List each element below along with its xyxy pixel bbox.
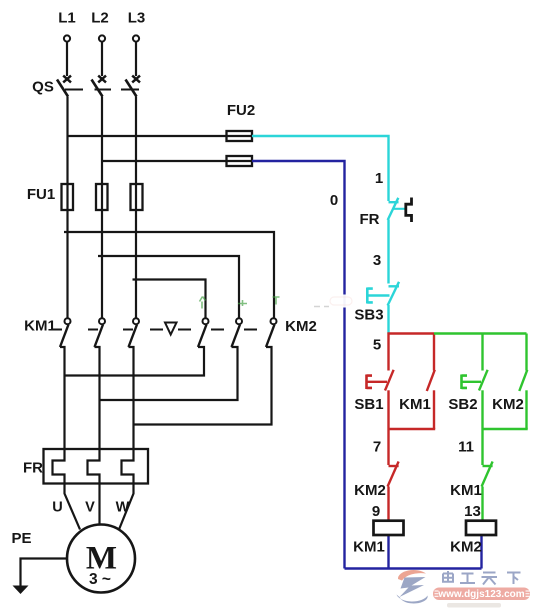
svg-text:FU1: FU1: [27, 186, 55, 203]
switch QS pole 1 contact cross: [63, 76, 71, 83]
button SB2 blade: [479, 370, 488, 391]
svg-text:11: 11: [458, 439, 474, 456]
wire node 3 to node 5: [387, 305, 389, 334]
switch QS linkage dash 1: [65, 89, 83, 91]
button SB2 cap: [462, 375, 468, 390]
svg-text:1: 1: [375, 170, 383, 187]
button SB2 stem: [462, 381, 482, 383]
wire KM2 pole 1 to node U: [65, 347, 205, 376]
switch QS pole 1 blade: [57, 80, 68, 97]
wire crossover phase A to KM2 right pole: [64, 232, 274, 318]
button SB1 stem: [367, 381, 388, 383]
contact KM2 NC blade: [388, 462, 399, 487]
watermark text tian (天): [482, 573, 498, 585]
fuse FU2 lower body: [227, 156, 253, 166]
svg-text:KM2: KM2: [354, 482, 386, 499]
contactor KM2 pole 3 blade: [266, 325, 275, 348]
contact KM1 aux upper wire: [433, 334, 435, 371]
wire FR actuator link: [393, 208, 405, 210]
button SB1 blade: [385, 370, 394, 391]
wire neutral 0 from FU2 (navy): [252, 161, 345, 569]
node L2 terminal: [99, 35, 105, 41]
svg-text:SB2: SB2: [448, 396, 477, 413]
svg-text:KM2: KM2: [492, 396, 524, 413]
contactor KM1 pole 3 terminal: [133, 318, 139, 324]
wire phase B QS to FU1: [101, 97, 103, 319]
fuse FU1 phase C body: [131, 184, 143, 210]
faint watermark gray dashes mid diagram: [314, 306, 329, 308]
svg-text:www.dgjs123.com: www.dgjs123.com: [437, 589, 524, 600]
fuse FU1 phase B body: [96, 184, 108, 210]
wire control tap phase A to FU2 upper: [68, 135, 227, 137]
contactor KM2 pole 2 blade: [232, 325, 241, 348]
watermark faint footer text: [447, 603, 501, 608]
wire node 1 to node 3: [387, 220, 389, 284]
wire motor phase W KM1 to FR: [129, 347, 134, 449]
button SB3 cap: [367, 288, 373, 304]
wire FR to motor terminal W: [119, 484, 134, 530]
watermark url pill: [433, 588, 530, 601]
contact KM2 aux lower wire: [525, 390, 527, 429]
wire SB2 to node 11 bus: [481, 390, 483, 429]
contact KM1 aux blade: [427, 370, 435, 391]
wire crossover phase C to KM2 left pole: [133, 280, 206, 319]
svg-text:FR: FR: [23, 460, 43, 477]
svg-text:0: 0: [330, 192, 338, 209]
svg-text:FU2: FU2: [227, 102, 255, 119]
switch QS linkage dash 2: [95, 89, 112, 91]
thermal overload FR box: [44, 449, 149, 484]
wire L2 drop to QS: [101, 42, 103, 76]
svg-text:KM1: KM1: [24, 318, 56, 335]
contactor KM2 pole 2 terminal: [236, 318, 242, 324]
contact KM1 NC seat: [483, 465, 493, 467]
switch QS pole 2 blade: [92, 80, 103, 97]
wire node 5 bus (green): [434, 332, 527, 334]
contactor KM1 pole 3 blade: [129, 325, 138, 348]
contact KM2 aux upper wire: [525, 334, 527, 371]
wire KM2 coil to rail: [480, 535, 482, 569]
wire phase C QS to FU1: [135, 97, 137, 319]
contact KM1 aux lower wire: [433, 390, 435, 429]
svg-text:7: 7: [373, 439, 381, 456]
contactor KM1 pole 1 terminal: [65, 318, 71, 324]
svg-text:SB3: SB3: [354, 307, 383, 324]
svg-text:QS: QS: [32, 79, 54, 96]
wire crossover phase B to KM2 middle pole: [98, 256, 239, 318]
contact FR NC blade: [388, 198, 399, 220]
wire PE to motor frame: [21, 559, 68, 587]
contact KM2 aux blade: [519, 370, 527, 391]
svg-text:KM2: KM2: [450, 539, 482, 556]
motor M body: [67, 525, 135, 593]
wire green branch bottom bar: [483, 428, 528, 430]
watermark text dian (电): [443, 571, 454, 582]
wire node 13 to KM2 coil: [481, 487, 483, 522]
wire L3 drop to QS: [135, 42, 137, 76]
switch QS pole 3 contact cross: [132, 76, 140, 83]
contact KM1 NC blade: [482, 462, 493, 487]
switch QS pole 2 contact cross: [98, 76, 106, 83]
watermark url pill stripes: [435, 591, 530, 596]
node L1 terminal: [64, 35, 70, 41]
wire through fuse FU2 upper: [227, 135, 253, 137]
watermark text gong (工): [460, 574, 475, 584]
mechanical interlock triangle: [165, 323, 177, 335]
button SB3 blade: [388, 282, 399, 306]
wire phase A QS to FU1: [66, 97, 68, 319]
contact KM2 NC seat: [389, 465, 399, 467]
switch QS pole 3 blade: [126, 80, 137, 97]
svg-text:V: V: [85, 500, 95, 516]
svg-text:5: 5: [373, 337, 381, 354]
ground earth symbol: [13, 586, 29, 595]
contactor KM1 pole 2 terminal: [99, 318, 105, 324]
wire node 9 to KM1 coil: [387, 487, 389, 522]
button SB3 stem: [367, 294, 389, 296]
coil KM1: [374, 521, 404, 535]
svg-text:KM2: KM2: [285, 318, 317, 335]
wire KM2 pole 3 to node W: [134, 347, 272, 425]
thermal overload FR heater phase W: [122, 449, 134, 484]
mechanical linkage dashed line: [53, 329, 257, 331]
contactor KM2 pole 1 terminal: [203, 318, 209, 324]
wire bottom rail (navy): [345, 567, 482, 569]
wire L1 drop to QS: [66, 42, 68, 76]
watermark logo bottom arc (slate): [397, 595, 428, 604]
wire control phase from FU2 to FR contact (cyan): [252, 136, 389, 201]
svg-text:PE: PE: [11, 530, 31, 547]
coil KM2: [466, 521, 496, 535]
watermark logo lightning (slate): [400, 577, 426, 597]
svg-text:L1: L1: [58, 10, 76, 27]
thermal release actuator symbol (black): [406, 198, 412, 223]
svg-text:U: U: [52, 500, 62, 516]
wire FR to motor terminal V: [98, 484, 100, 525]
svg-text:L2: L2: [91, 10, 109, 27]
contactor KM2 pole 3 terminal: [271, 318, 277, 324]
thermal overload FR heater phase U: [53, 449, 65, 484]
svg-text:KM1: KM1: [399, 396, 431, 413]
faint watermark pill mid diagram: [327, 295, 355, 308]
wire motor phase V KM1 to FR: [95, 347, 100, 449]
wire motor phase U KM1 to FR: [60, 347, 65, 449]
svg-text:FR: FR: [360, 211, 380, 228]
svg-text:W: W: [116, 500, 130, 516]
CONTROL CIRCUIT: [252, 136, 405, 334]
svg-text:3 ~: 3 ~: [89, 571, 111, 588]
node L3 terminal: [133, 35, 139, 41]
switch QS linkage dash 3: [121, 89, 139, 91]
wire to KM1 NC contact: [481, 429, 483, 465]
fuse FU2 upper body: [227, 131, 253, 141]
wire to KM2 NC contact: [387, 429, 389, 465]
svg-text:13: 13: [464, 503, 481, 520]
wire node 5 to SB1: [387, 333, 389, 371]
svg-text:L3: L3: [128, 10, 146, 27]
wire control tap phase B to FU2 lower: [102, 160, 227, 162]
thermal overload FR heater phase V: [88, 449, 100, 484]
svg-text:3: 3: [373, 252, 381, 269]
button SB1 cap: [367, 375, 373, 390]
svg-text:KM1: KM1: [353, 539, 385, 556]
contact FR NC seat: [389, 201, 399, 203]
svg-text:KM1: KM1: [450, 482, 482, 499]
wire red branch bottom bar: [389, 428, 436, 430]
watermark logo top arc (salmon): [398, 570, 426, 580]
contactor KM2 pole 1 blade: [198, 325, 207, 348]
fuse FU1 phase A body: [62, 184, 74, 210]
wire FR to motor terminal U: [65, 484, 81, 530]
wire KM2 pole 2 to node V: [100, 347, 238, 400]
wire through fuse FU2 lower: [227, 160, 253, 162]
button SB3 seat: [389, 285, 400, 287]
faint watermark glyphs mid diagram: [200, 297, 280, 309]
contactor KM1 pole 2 blade: [95, 325, 104, 348]
svg-text:SB1: SB1: [354, 396, 383, 413]
contactor KM1 pole 1 blade: [60, 325, 69, 348]
wire SB1 to node 7 bus: [387, 390, 389, 429]
svg-text:9: 9: [372, 503, 380, 520]
wire KM1 coil to rail: [387, 535, 389, 569]
watermark text xia (下): [507, 573, 521, 585]
wire node 5 bus (red): [388, 332, 435, 334]
wire to SB2: [481, 334, 483, 371]
